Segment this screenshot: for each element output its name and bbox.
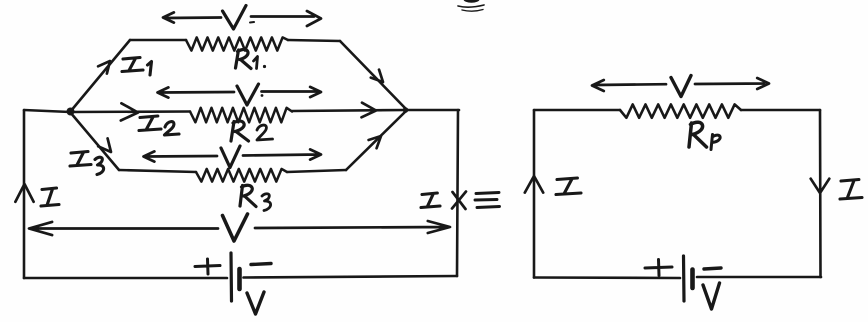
arrowhead current I downward cross on right rail (452, 192, 466, 210)
label R3 subscript 3 (262, 194, 271, 211)
voltage arrow V across R3 right segment with head (243, 149, 321, 159)
wire: top rail left segment (534, 109, 620, 112)
label Rp subscript p (711, 135, 720, 150)
voltage arrow V across R2 left segment with head (158, 87, 235, 97)
wire: branch3 bottom left segment (119, 170, 196, 172)
label V across R3 (221, 146, 240, 168)
label I right side of left circuit (421, 193, 440, 208)
wire: branch2 left segment from node A (70, 110, 190, 113)
wire: bottom rail right of battery (697, 276, 821, 279)
label Rp (689, 122, 707, 147)
wire: left vertical rail of right circuit (533, 110, 536, 278)
wire: branch1 falling diagonal to node B (340, 41, 406, 109)
label I left side of right circuit (556, 178, 581, 195)
arrowhead current I upward on left rail (15, 184, 33, 202)
arrowhead current I upward on right-circuit left rail (525, 176, 543, 193)
stray dot after R1 (263, 65, 266, 68)
resistor R2 zigzag (190, 108, 292, 123)
wire: branch1 rising diagonal from node A (70, 40, 130, 112)
arrowhead on branch1 falling diagonal (371, 70, 383, 82)
node B junction blob (403, 107, 409, 113)
voltage arrow V across R1 right segment with head (251, 11, 321, 26)
label I2 (139, 116, 179, 135)
battery V (left circuit) negative short plate (237, 269, 242, 289)
label V across R1 (223, 6, 247, 30)
wire: right vertical rail of right circuit (819, 110, 822, 277)
wire: right top stub from node B (406, 109, 459, 112)
voltage arrow V across Rp right segment with head (695, 78, 769, 89)
label I left side of left circuit (41, 188, 59, 206)
stray dot after V2 (261, 94, 264, 97)
voltage arrow V across source left segment with head (29, 222, 218, 235)
label V across source (left circuit) (223, 214, 248, 241)
arrowhead current on branch2 right (362, 103, 377, 118)
arrowhead current I downward on right-circuit right rail (811, 179, 830, 193)
voltage arrow V across R3 left segment with head (144, 151, 218, 161)
label V across R2 (237, 84, 259, 105)
label I right side of right circuit (840, 180, 862, 200)
wire: branch1 top right segment (288, 40, 340, 41)
battery value label V (right) (703, 283, 720, 309)
wire: branch3 rising diagonal to node B (346, 111, 406, 170)
voltage arrow V across source right segment with head (255, 221, 450, 233)
arrowhead current I2 (121, 103, 138, 120)
wire: branch3 bottom right segment (287, 170, 346, 172)
voltage arrow V across Rp left segment with head (592, 80, 666, 91)
stray tick after V1 (250, 21, 254, 24)
arrowhead current I3 on diagonal (98, 138, 111, 152)
battery plus sign (195, 259, 220, 274)
wire: right vertical rail of left circuit (457, 110, 458, 276)
equivalence symbol (475, 193, 500, 208)
battery V (right circuit) positive long plate (682, 256, 686, 301)
battery V (left circuit) positive long plate (229, 253, 233, 301)
wire: bottom rail left of battery (534, 276, 680, 279)
voltage arrow V across R1 left segment with head (163, 12, 221, 22)
label R1 (236, 49, 252, 68)
node A junction dot (67, 108, 75, 116)
label R2 (231, 121, 249, 141)
battery V (right circuit) negative short plate (690, 270, 695, 289)
resistor R1 zigzag (186, 37, 288, 50)
resistor Rp zigzag (620, 104, 741, 117)
label R3 (240, 185, 256, 206)
wire: left top stub from node A to left rail (24, 110, 70, 112)
wire: branch3 falling diagonal from node A (70, 112, 119, 170)
label I3 (70, 152, 104, 175)
wire: branch2 right segment to node B (292, 110, 406, 111)
voltage arrow V across R2 right segment with head (262, 87, 322, 97)
label R2 subscript 2 (257, 125, 273, 140)
battery minus sign (251, 264, 271, 265)
battery minus sign (right) (704, 268, 721, 269)
label V across Rp (671, 76, 691, 97)
wire: bottom rail left of battery (24, 277, 227, 280)
battery plus sign (right) (645, 260, 672, 276)
wire: top rail right segment (741, 109, 820, 112)
battery value label V (247, 292, 264, 314)
wire: branch1 top left segment (130, 39, 186, 42)
label R1 subscript 1 (254, 57, 258, 69)
arrowhead on branch3 rising diagonal (369, 136, 381, 148)
arrowhead current I1 on diagonal (98, 61, 110, 74)
cropped ink mark at top edge (464, 0, 480, 3)
resistor R3 zigzag (196, 169, 287, 182)
wire: bottom rail right of battery (244, 276, 458, 278)
wire: left vertical rail of left circuit (23, 110, 26, 278)
label I1 (122, 58, 152, 76)
